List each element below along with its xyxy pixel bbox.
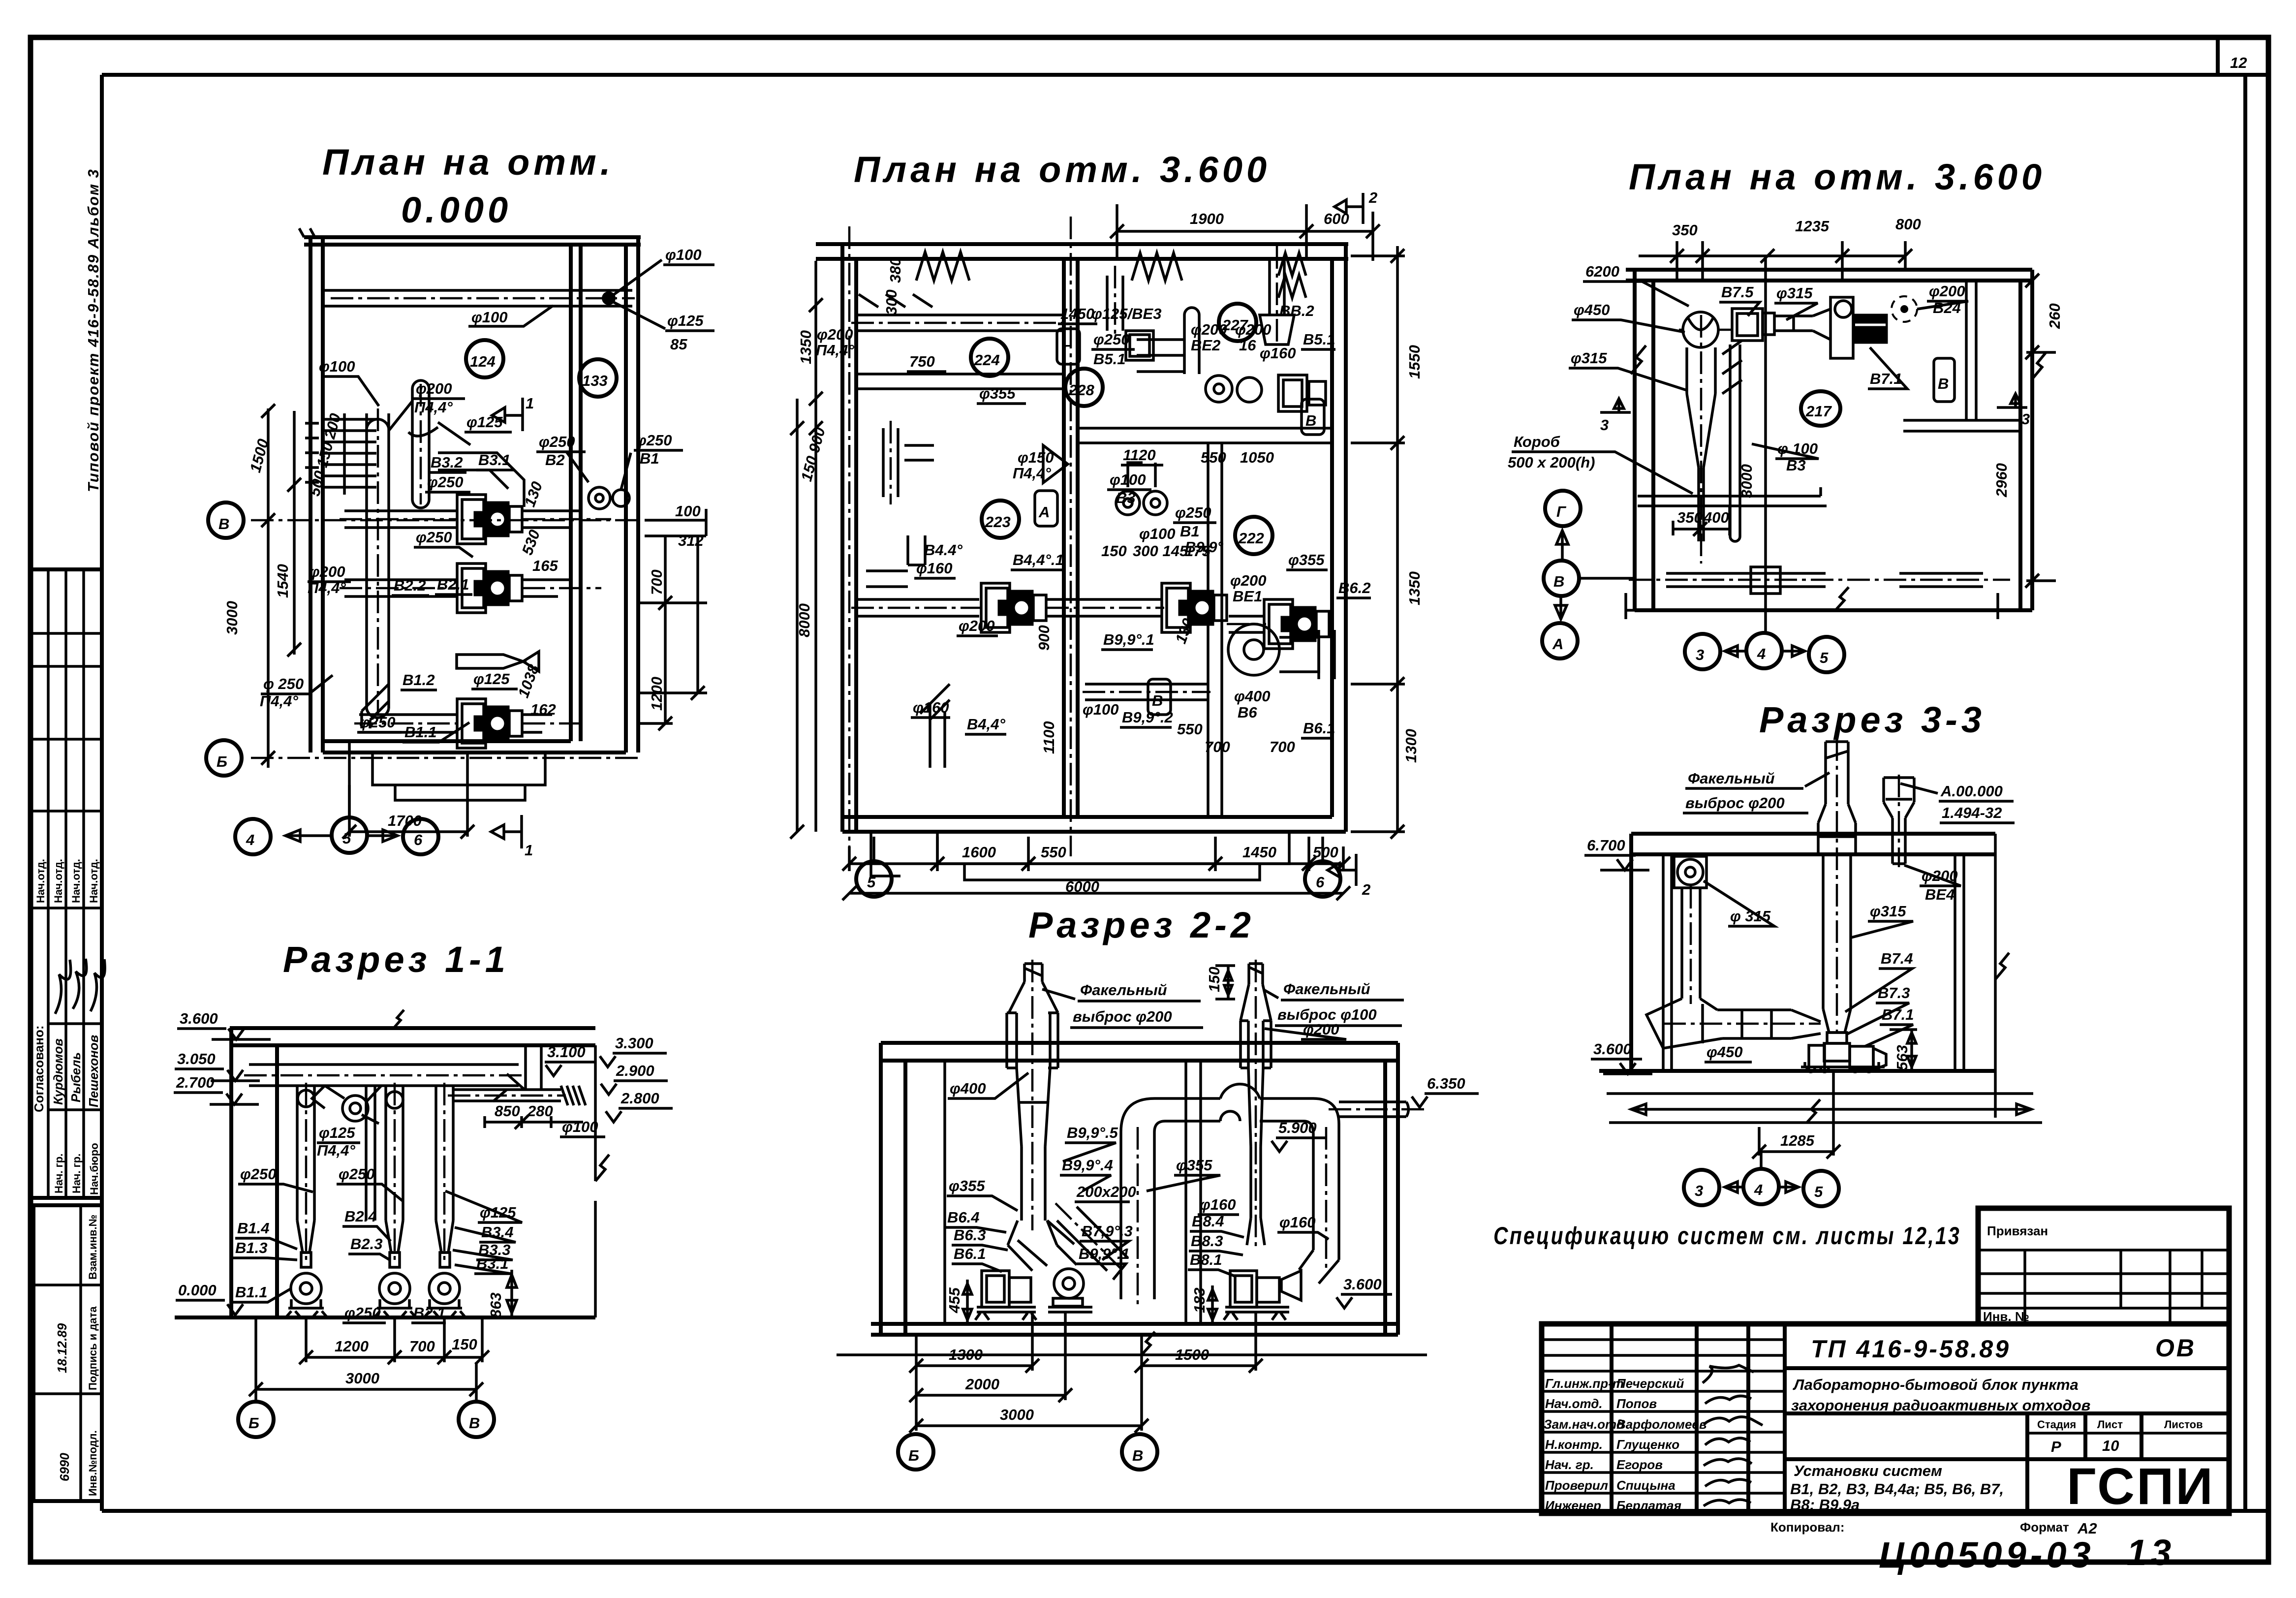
svg-text:200х200: 200х200: [1076, 1183, 1136, 1200]
svg-text:222: 222: [1238, 530, 1264, 547]
svg-text:φ125: φ125: [466, 413, 503, 431]
svg-text:φ160: φ160: [916, 560, 953, 577]
svg-text:А: А: [1552, 635, 1563, 653]
svg-text:6000: 6000: [1065, 878, 1099, 895]
svg-text:φ 250: φ 250: [263, 675, 304, 692]
svg-text:Листов: Листов: [2164, 1418, 2203, 1431]
svg-text:Факельный: Факельный: [1080, 981, 1167, 999]
svg-text:260: 260: [2046, 303, 2063, 329]
svg-text:В1.4: В1.4: [237, 1220, 269, 1237]
svg-text:φ200: φ200: [309, 563, 345, 580]
svg-text:1550: 1550: [1406, 345, 1423, 379]
svg-text:φ250: φ250: [240, 1165, 277, 1183]
svg-text:П4,4°: П4,4°: [816, 342, 854, 359]
svg-text:280: 280: [527, 1102, 553, 1120]
svg-text:захоронения радиоактивных отхо: захоронения радиоактивных отходов: [1791, 1397, 2090, 1414]
svg-text:3000: 3000: [223, 601, 241, 635]
svg-text:В2.1: В2.1: [413, 1304, 445, 1321]
svg-text:Инженер: Инженер: [1545, 1498, 1601, 1513]
svg-text:В8; В9,9а: В8; В9,9а: [1790, 1496, 1860, 1513]
svg-text:φ450: φ450: [1574, 301, 1610, 318]
svg-text:Факельный: Факельный: [1688, 770, 1775, 787]
svg-text:Лист: Лист: [2097, 1418, 2123, 1431]
svg-text:3: 3: [1600, 416, 1609, 434]
svg-text:Факельный: Факельный: [1283, 980, 1370, 998]
svg-text:5: 5: [342, 830, 351, 847]
svg-text:550: 550: [1041, 844, 1066, 861]
svg-text:165: 165: [532, 557, 558, 574]
svg-text:В: В: [218, 515, 229, 533]
svg-text:Печерский: Печерский: [1616, 1376, 1684, 1391]
svg-text:φ250: φ250: [1093, 331, 1130, 348]
svg-text:выброс φ200: выброс φ200: [1685, 794, 1785, 812]
svg-text:φ160: φ160: [1260, 345, 1296, 362]
svg-text:Взам.инв.№: Взам.инв.№: [87, 1215, 99, 1280]
svg-text:В9,9°.1: В9,9°.1: [1103, 631, 1154, 648]
svg-text:ВЕ4: ВЕ4: [1925, 886, 1955, 903]
svg-text:φ250: φ250: [1175, 504, 1211, 521]
svg-text:228: 228: [1068, 381, 1094, 399]
svg-text:φ200: φ200: [1191, 321, 1227, 338]
svg-text:В1, В2, В3, В4,4а; В5, В6, В7,: В1, В2, В3, В4,4а; В5, В6, В7,: [1790, 1480, 2004, 1498]
svg-text:16: 16: [1239, 337, 1256, 354]
svg-text:Короб: Короб: [1514, 433, 1560, 450]
svg-text:550: 550: [1201, 449, 1226, 466]
svg-text:100: 100: [675, 502, 701, 520]
svg-text:Копировал:: Копировал:: [1770, 1520, 1844, 1535]
svg-text:В1: В1: [640, 450, 659, 467]
svg-text:В6.2: В6.2: [1338, 579, 1370, 596]
svg-text:Проверил: Проверил: [1545, 1478, 1608, 1493]
svg-text:В7.5: В7.5: [1721, 283, 1754, 301]
svg-text:Разрез 2-2: Разрез 2-2: [1028, 905, 1255, 945]
svg-text:Зам.нач.отд: Зам.нач.отд: [1544, 1417, 1624, 1432]
svg-text:П4,4°: П4,4°: [414, 399, 453, 416]
svg-text:350: 350: [1672, 221, 1698, 239]
svg-text:φ315: φ315: [1776, 284, 1813, 302]
svg-text:В6.1: В6.1: [1303, 720, 1335, 737]
svg-text:В3: В3: [1116, 489, 1136, 506]
svg-text:Гл.инж.пр-т: Гл.инж.пр-т: [1545, 1376, 1624, 1391]
svg-text:1120: 1120: [1123, 446, 1156, 464]
svg-text:500 х 200(h): 500 х 200(h): [1508, 454, 1595, 471]
svg-text:φ100: φ100: [471, 309, 508, 326]
svg-text:150 900: 150 900: [798, 426, 829, 483]
svg-text:2: 2: [1368, 189, 1377, 206]
svg-text:600: 600: [1324, 210, 1349, 227]
svg-text:3.300: 3.300: [615, 1034, 653, 1052]
svg-text:Рыбель: Рыбель: [68, 1052, 83, 1102]
svg-text:850: 850: [495, 1102, 520, 1120]
svg-text:8000: 8000: [796, 603, 813, 637]
svg-text:В1.2: В1.2: [403, 671, 434, 689]
svg-text:183: 183: [1191, 1287, 1208, 1313]
svg-text:Курдюмов: Курдюмов: [51, 1038, 65, 1105]
svg-text:φ200: φ200: [1929, 282, 1965, 300]
svg-text:6: 6: [1316, 874, 1325, 891]
svg-text:ВЕ1: ВЕ1: [1233, 588, 1262, 605]
svg-text:В7.4: В7.4: [1881, 950, 1913, 967]
svg-text:2.700: 2.700: [176, 1074, 215, 1091]
svg-text:В9,9°.4: В9,9°.4: [1062, 1157, 1113, 1174]
svg-text:Согласовано:: Согласовано:: [31, 1025, 46, 1112]
svg-text:В9,9°: В9,9°: [1185, 538, 1223, 556]
svg-text:Б: Б: [908, 1447, 919, 1464]
svg-text:В5.1: В5.1: [1093, 350, 1125, 368]
svg-text:380: 380: [887, 257, 904, 283]
svg-text:224: 224: [974, 351, 1000, 369]
svg-text:Егоров: Егоров: [1616, 1457, 1663, 1472]
svg-text:300 145: 300 145: [1133, 542, 1188, 560]
svg-text:Нач.отд.: Нач.отд.: [1545, 1396, 1603, 1411]
svg-text:φ200: φ200: [1235, 321, 1272, 338]
svg-text:В9,9°.5: В9,9°.5: [1067, 1124, 1118, 1141]
svg-text:3.050: 3.050: [177, 1050, 216, 1067]
svg-text:Установки систем: Установки систем: [1794, 1462, 1942, 1479]
svg-text:Б: Б: [217, 753, 227, 770]
svg-text:Варфоломеев: Варфоломеев: [1616, 1417, 1707, 1432]
svg-text:1: 1: [525, 842, 533, 859]
svg-text:Нач.отд.: Нач.отд.: [52, 859, 64, 903]
svg-text:700: 700: [409, 1338, 435, 1355]
svg-text:Разрез 3-3: Разрез 3-3: [1759, 699, 1986, 740]
svg-text:В1.3: В1.3: [235, 1239, 267, 1256]
svg-text:1235: 1235: [1795, 218, 1830, 235]
svg-text:φ125: φ125: [667, 312, 704, 329]
svg-text:Спицына: Спицына: [1616, 1478, 1675, 1493]
svg-text:0.000: 0.000: [178, 1282, 217, 1299]
svg-text:В1.1: В1.1: [235, 1284, 267, 1301]
svg-text:φ355: φ355: [1288, 551, 1325, 568]
svg-text:Привязан: Привязан: [1987, 1223, 2048, 1238]
svg-text:В9,9°.2: В9,9°.2: [1122, 709, 1173, 726]
svg-text:φ355: φ355: [979, 385, 1016, 402]
svg-text:1540: 1540: [274, 564, 291, 598]
svg-text:Ц00509-03: Ц00509-03: [1879, 1535, 2095, 1575]
svg-text:В3.1: В3.1: [478, 451, 510, 469]
svg-text:4: 4: [246, 831, 254, 848]
svg-text:5: 5: [867, 874, 876, 891]
svg-text:5.900: 5.900: [1278, 1119, 1317, 1136]
svg-text:1350: 1350: [797, 330, 814, 364]
svg-text:5: 5: [1814, 1183, 1823, 1200]
svg-text:3000: 3000: [1000, 1406, 1034, 1423]
svg-text:φ100: φ100: [1139, 525, 1176, 542]
svg-text:В: В: [1305, 412, 1316, 429]
svg-text:φ100: φ100: [1110, 471, 1146, 488]
svg-text:В24: В24: [1933, 299, 1961, 316]
svg-text:φ100: φ100: [665, 246, 702, 263]
svg-text:φ250: φ250: [339, 1165, 375, 1183]
svg-text:150: 150: [1206, 967, 1223, 992]
svg-text:1038: 1038: [515, 662, 543, 700]
svg-text:4: 4: [1757, 645, 1766, 662]
svg-text:φ160: φ160: [1200, 1196, 1236, 1213]
svg-text:150: 150: [452, 1336, 477, 1353]
svg-text:А.00.000: А.00.000: [1940, 783, 2003, 800]
svg-text:Г: Г: [1062, 342, 1072, 359]
svg-text:13: 13: [2127, 1532, 2175, 1573]
svg-text:φ200: φ200: [416, 380, 452, 397]
svg-text:Разрез 1-1: Разрез 1-1: [283, 939, 509, 980]
svg-text:φ100: φ100: [1083, 701, 1119, 718]
svg-text:5: 5: [1820, 649, 1829, 666]
svg-text:1050: 1050: [1240, 449, 1274, 466]
svg-text:Берлатая: Берлатая: [1616, 1498, 1681, 1513]
svg-text:124: 124: [470, 353, 496, 370]
svg-text:Глущенко: Глущенко: [1616, 1437, 1679, 1452]
svg-text:Подпись и дата: Подпись и дата: [87, 1306, 99, 1390]
svg-text:1300: 1300: [949, 1346, 983, 1363]
svg-text:φ315: φ315: [1571, 349, 1607, 367]
svg-text:455: 455: [946, 1287, 963, 1314]
svg-text:φ250: φ250: [427, 473, 464, 491]
svg-text:φ150: φ150: [1018, 449, 1054, 466]
svg-text:700: 700: [1205, 738, 1230, 755]
svg-text:Б: Б: [248, 1414, 259, 1432]
svg-text:В1: В1: [1180, 523, 1200, 540]
svg-text:В2.4: В2.4: [344, 1208, 376, 1225]
svg-text:ВВ.2: ВВ.2: [1279, 302, 1314, 319]
svg-text:Нач.отд.: Нач.отд.: [88, 859, 100, 903]
svg-text:133: 133: [582, 372, 608, 389]
svg-text:φ250: φ250: [416, 529, 452, 546]
svg-text:В7.1: В7.1: [1882, 1006, 1914, 1023]
svg-text:2960: 2960: [1993, 463, 2010, 498]
svg-text:550: 550: [1177, 721, 1203, 738]
svg-text:3.600: 3.600: [180, 1010, 218, 1027]
svg-text:В: В: [1132, 1447, 1143, 1464]
svg-text:18.12.89: 18.12.89: [55, 1323, 69, 1373]
svg-text:2000: 2000: [965, 1376, 999, 1393]
svg-text:Н.контр.: Н.контр.: [1545, 1437, 1603, 1452]
svg-text:1900: 1900: [1190, 210, 1224, 227]
svg-text:В9,9°.1: В9,9°.1: [1079, 1245, 1130, 1262]
svg-text:В8.1: В8.1: [1190, 1251, 1222, 1268]
svg-text:ВЕ2: ВЕ2: [1191, 337, 1220, 354]
svg-text:φ100: φ100: [562, 1118, 598, 1135]
svg-text:Лабораторно-бытовой блок пункт: Лабораторно-бытовой блок пункта: [1793, 1376, 2079, 1393]
svg-text:Спецификацию систем см. лист: Спецификацию систем см. листы 12,13: [1493, 1222, 1961, 1250]
svg-text:1.494-32: 1.494-32: [1942, 804, 2002, 821]
svg-text:312: 312: [678, 532, 704, 549]
svg-text:φ450: φ450: [1706, 1043, 1743, 1061]
svg-text:φ125: φ125: [319, 1124, 355, 1141]
svg-text:Нач. гр.: Нач. гр.: [70, 1154, 83, 1193]
svg-text:В7,9°.3: В7,9°.3: [1082, 1222, 1133, 1240]
svg-text:Нач.отд.: Нач.отд.: [70, 859, 82, 903]
svg-text:φ315: φ315: [1870, 903, 1906, 920]
svg-text:223: 223: [985, 513, 1011, 531]
svg-text:Инв. №: Инв. №: [1983, 1309, 2029, 1324]
svg-text:В3.2: В3.2: [431, 454, 463, 471]
svg-text:10: 10: [2102, 1437, 2119, 1454]
svg-text:А: А: [1038, 503, 1050, 521]
svg-text:162: 162: [530, 701, 556, 718]
svg-text:φ400: φ400: [1234, 688, 1271, 705]
svg-text:Нач.бюро: Нач.бюро: [88, 1143, 100, 1195]
svg-text:В6: В6: [1238, 704, 1257, 721]
svg-text:3.100: 3.100: [547, 1043, 586, 1061]
svg-text:В2: В2: [545, 451, 565, 469]
svg-text:1450: 1450: [1060, 305, 1094, 322]
svg-text:6.700: 6.700: [1587, 837, 1625, 854]
svg-text:4: 4: [1754, 1181, 1763, 1198]
svg-text:Попов: Попов: [1616, 1396, 1657, 1411]
svg-text:3000: 3000: [1738, 464, 1755, 498]
svg-text:В: В: [1938, 375, 1949, 392]
svg-text:В2.1: В2.1: [437, 576, 469, 593]
svg-text:Формат: Формат: [2020, 1520, 2069, 1535]
svg-text:В8.3: В8.3: [1191, 1232, 1223, 1250]
svg-text:3: 3: [2021, 410, 2030, 428]
svg-text:3: 3: [1696, 646, 1704, 663]
svg-text:φ100: φ100: [319, 358, 355, 375]
svg-text:217: 217: [1805, 403, 1832, 420]
svg-text:350: 350: [1677, 509, 1703, 526]
svg-text:Нач. гр.: Нач. гр.: [1545, 1457, 1594, 1472]
svg-text:85: 85: [670, 336, 687, 353]
svg-text:В6.1: В6.1: [954, 1245, 986, 1262]
svg-text:В8.4: В8.4: [1192, 1213, 1224, 1230]
svg-text:3000: 3000: [345, 1370, 379, 1387]
svg-text:φ400: φ400: [950, 1080, 986, 1097]
svg-text:Г: Г: [1556, 503, 1567, 520]
svg-text:Инв.№подл.: Инв.№подл.: [87, 1430, 99, 1496]
svg-text:План на отм. 3.600: План на отм. 3.600: [1629, 157, 2046, 197]
svg-text:1350: 1350: [1406, 571, 1423, 605]
svg-text:6.350: 6.350: [1427, 1075, 1465, 1092]
svg-text:750: 750: [909, 353, 935, 370]
svg-text:150: 150: [1101, 542, 1127, 560]
svg-text:В4,4°: В4,4°: [967, 716, 1005, 733]
svg-text:φ200: φ200: [817, 326, 853, 343]
svg-text:В5.1: В5.1: [1303, 331, 1335, 348]
svg-text:3: 3: [1695, 1182, 1703, 1199]
svg-text:ГСПИ: ГСПИ: [2067, 1458, 2215, 1515]
svg-text:φ160: φ160: [913, 699, 949, 716]
svg-text:ОВ: ОВ: [2155, 1334, 2196, 1362]
svg-text:В3: В3: [1786, 457, 1806, 474]
svg-text:φ250: φ250: [636, 432, 672, 449]
svg-text:В2.2: В2.2: [394, 577, 426, 594]
svg-text:800: 800: [1895, 216, 1921, 233]
svg-text:1: 1: [526, 395, 534, 412]
svg-text:500: 500: [1313, 844, 1338, 861]
svg-text:φ200: φ200: [1230, 572, 1267, 589]
svg-text:выброс φ200: выброс φ200: [1073, 1008, 1172, 1025]
svg-text:1500: 1500: [1175, 1346, 1209, 1363]
svg-text:Нач.отд.: Нач.отд.: [34, 859, 47, 903]
svg-text:ТП 416-9-58.89: ТП 416-9-58.89: [1811, 1335, 2011, 1363]
svg-text:Типовой проект 416-9-58.89 Аль: Типовой проект 416-9-58.89 Альбом 3: [85, 168, 102, 492]
svg-text:1285: 1285: [1780, 1132, 1815, 1149]
svg-text:2.900: 2.900: [616, 1062, 654, 1079]
svg-text:863: 863: [487, 1292, 504, 1318]
svg-text:В2.3: В2.3: [350, 1235, 382, 1253]
svg-text:φ250: φ250: [359, 714, 396, 731]
svg-text:φ250: φ250: [539, 433, 575, 450]
svg-text:В4,4°.1: В4,4°.1: [1013, 551, 1064, 568]
svg-text:12: 12: [2230, 54, 2247, 71]
svg-text:В: В: [1553, 573, 1564, 590]
svg-text:3.600: 3.600: [1343, 1276, 1382, 1293]
svg-text:6200: 6200: [1585, 263, 1619, 280]
svg-text:2: 2: [1362, 881, 1370, 898]
svg-text:φ250: φ250: [344, 1304, 381, 1321]
svg-text:900: 900: [1035, 625, 1053, 651]
svg-text:1100: 1100: [1040, 721, 1057, 754]
svg-text:φ125/ВЕ3: φ125/ВЕ3: [1091, 305, 1161, 322]
svg-text:6990: 6990: [57, 1453, 72, 1481]
svg-text:1200: 1200: [335, 1338, 369, 1355]
svg-text:700: 700: [648, 569, 665, 595]
svg-text:1300: 1300: [1402, 729, 1420, 763]
svg-text:300: 300: [883, 289, 900, 315]
svg-text:φ200: φ200: [959, 617, 995, 634]
svg-text:1450: 1450: [1242, 844, 1276, 861]
svg-text:1600: 1600: [962, 844, 996, 861]
svg-text:Нач. гр.: Нач. гр.: [53, 1154, 65, 1193]
svg-text:φ355: φ355: [1176, 1157, 1212, 1174]
svg-text:700: 700: [1270, 738, 1295, 755]
svg-text:φ355: φ355: [949, 1177, 985, 1194]
svg-text:В: В: [469, 1414, 480, 1432]
svg-text:Пешехонов: Пешехонов: [86, 1034, 101, 1107]
svg-text:6: 6: [414, 831, 423, 848]
svg-text:Стадия: Стадия: [2037, 1418, 2076, 1431]
svg-text:В4.4°: В4.4°: [924, 541, 962, 559]
svg-text:3.600: 3.600: [1593, 1040, 1632, 1058]
svg-text:План на отм.: План на отм.: [322, 142, 614, 183]
svg-text:П4,4°: П4,4°: [1013, 465, 1051, 482]
svg-text:2.800: 2.800: [621, 1090, 659, 1107]
svg-text:В1.1: В1.1: [404, 723, 436, 741]
svg-text:План на отм. 3.600: План на отм. 3.600: [854, 149, 1271, 190]
svg-text:φ160: φ160: [1279, 1214, 1316, 1231]
svg-text:В6.4: В6.4: [947, 1209, 979, 1226]
svg-text:0.000: 0.000: [401, 189, 512, 230]
svg-text:φ125: φ125: [473, 670, 510, 688]
svg-text:П4,4°: П4,4°: [317, 1142, 355, 1159]
svg-text:Р: Р: [2051, 1438, 2061, 1455]
svg-text:В6.3: В6.3: [954, 1226, 986, 1244]
svg-text:В7.3: В7.3: [1878, 984, 1910, 1002]
